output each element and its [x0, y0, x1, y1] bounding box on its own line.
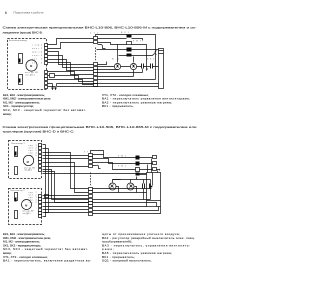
svg-text:лаждением (крыша) ВНС-В:: лаждением (крыша) ВНС-В: — [3, 31, 43, 35]
svg-text:с кор.1: с кор.1 — [32, 44, 42, 46]
svg-text:красн.3: красн.3 — [32, 52, 42, 54]
svg-text:тип ДВ-1: тип ДВ-1 — [23, 213, 31, 215]
svg-text:SK2, SK3 - защитный термостат: SK2, SK3 - защитный термостат без автома… — [3, 108, 86, 112]
svg-text:ВК1: ВК1 — [121, 32, 129, 34]
svg-text:черн.4: черн.4 — [32, 55, 42, 57]
svg-text:ВА3 - переключатель, управлени: ВА3 - переключатель, управления вентилят… — [102, 243, 190, 247]
svg-text:син. 5: син. 5 — [29, 202, 37, 204]
svg-text:бел. 6: бел. 6 — [32, 62, 42, 64]
svg-text:тип ДВ-1: тип ДВ-1 — [25, 74, 35, 76]
svg-text:возвр.;: возвр.; — [3, 112, 12, 116]
svg-text:тип ДВ-1: тип ДВ-1 — [24, 170, 32, 172]
svg-text:троллеров (круглая) ВНС-D и ВН: троллеров (круглая) ВНС-D и ВНС-С: — [3, 130, 75, 134]
svg-text:Подготовка к работе: Подготовка к работе — [14, 11, 45, 15]
svg-text:Схема электрическая принципиал: Схема электрическая принципиальная ВНС-L… — [3, 125, 197, 129]
svg-text:ХТ2: ХТ2 — [84, 152, 91, 154]
svg-text:син. 5: син. 5 — [32, 59, 42, 61]
svg-text:М: М — [25, 203, 27, 207]
svg-text:Вентилятор охлажд.: Вентилятор охлажд. — [9, 40, 27, 42]
svg-text:М: М — [27, 160, 29, 164]
svg-text:SQ1 - концевой выключатель.: SQ1 - концевой выключатель. — [102, 259, 152, 263]
svg-text:Вентилятор 2: Вентилятор 2 — [11, 190, 25, 192]
svg-text:6: 6 — [5, 11, 7, 15]
svg-text:SK3, SK4 - защитный термостат: SK3, SK4 - защитный термостат без автома… — [3, 247, 88, 251]
svg-text:желт.2: желт.2 — [32, 48, 42, 50]
svg-text:ВА1 - переключатель, включение: ВА1 - переключатель, включение раздатчик… — [3, 259, 91, 263]
svg-text:Вентилятор 1: Вентилятор 1 — [12, 143, 25, 145]
svg-text:SK1: SK1 — [147, 59, 154, 61]
svg-text:Схема электрическая принципиал: Схема электрическая принципиальная ВНС-L… — [3, 26, 197, 30]
svg-text:ВК1 - прерыватель.: ВК1 - прерыватель. — [102, 104, 134, 108]
